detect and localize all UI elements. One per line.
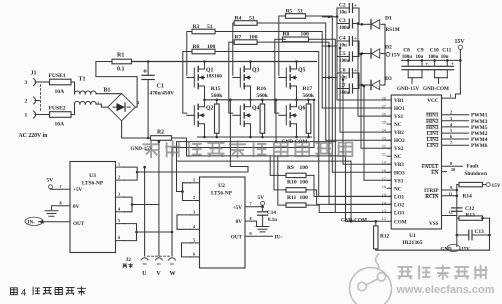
resistor R6 — [192, 49, 215, 54]
svg-text:17: 17 — [382, 177, 386, 181]
svg-text:PWM6: PWM6 — [471, 143, 488, 149]
wire U2 pin6 stub — [191, 256, 200, 258]
wire Q5 gate lead — [279, 77, 287, 79]
wire Q2 gate lead — [187, 114, 195, 116]
svg-text:FUSE1: FUSE1 — [49, 73, 66, 79]
junction R15 top — [216, 99, 219, 102]
junction VB row C6 — [328, 76, 331, 79]
connector J2 pin V — [155, 258, 162, 260]
op-amp U1 IR21365 body — [391, 95, 441, 229]
svg-text:28: 28 — [382, 97, 386, 101]
capacitor C8 — [402, 65, 415, 67]
svg-text:LIN2: LIN2 — [427, 137, 439, 143]
svg-text:NC: NC — [394, 122, 402, 128]
junction R16 top — [261, 99, 264, 102]
junction leg1 drain on rail — [203, 60, 206, 63]
op-amp U2 LT56-NP body — [200, 177, 246, 268]
svg-text:6: 6 — [450, 134, 452, 139]
junction phase V on aux rail — [275, 140, 278, 143]
wire U3 pins 5-6 jumper — [125, 224, 137, 241]
wire FUSE2 to T1 bottom — [71, 104, 75, 114]
junction U3 primary V — [131, 203, 134, 206]
svg-text:100: 100 — [301, 32, 310, 38]
svg-text:5: 5 — [193, 237, 195, 242]
svg-text:LTS6-NP: LTS6-NP — [82, 181, 104, 187]
wire U2 primary up — [177, 161, 183, 191]
svg-text:PWM4: PWM4 — [471, 137, 488, 143]
capacitor C9 — [416, 65, 429, 67]
junction R17 top — [307, 99, 310, 102]
svg-text:EN: EN — [431, 170, 438, 176]
svg-text:C13: C13 — [475, 229, 485, 235]
svg-text:100: 100 — [300, 165, 309, 171]
wire R17 top — [308, 100, 310, 104]
node leg3 drain — [296, 61, 298, 64]
wire C9 top lead — [421, 60, 423, 65]
svg-text:100u: 100u — [339, 26, 350, 31]
wire RC net left rail — [456, 185, 458, 235]
svg-text:560k: 560k — [256, 93, 268, 99]
node leg1 drain — [204, 61, 206, 64]
wire U3 pin1 stub — [116, 166, 125, 168]
wire R7 to driver pin — [257, 42, 391, 204]
junction V from aux rail — [158, 140, 161, 143]
svg-text:8: 8 — [60, 200, 62, 205]
svg-text:24: 24 — [382, 129, 386, 133]
svg-text:HIN2: HIN2 — [426, 119, 439, 125]
svg-text:www.elecfans.com: www.elecfans.com — [396, 284, 495, 296]
svg-text:20: 20 — [451, 167, 455, 172]
ground C14 — [256, 227, 269, 232]
node 5V U3 — [49, 185, 53, 189]
svg-text:5: 5 — [450, 128, 452, 133]
svg-text:9: 9 — [250, 231, 252, 236]
svg-text:HO1: HO1 — [394, 106, 405, 112]
resistor R12 — [374, 226, 378, 249]
junction 5V C14 — [261, 205, 264, 208]
wire V to J2 — [158, 205, 160, 257]
wire bridge DC+ to R1 — [96, 62, 137, 108]
node 5V U2 — [261, 201, 265, 205]
svg-text:R2: R2 — [157, 130, 164, 136]
svg-text:18: 18 — [382, 169, 386, 173]
svg-text:NC: NC — [394, 186, 402, 192]
svg-text:R8: R8 — [283, 32, 290, 38]
wire phase U drop — [137, 100, 248, 172]
wire C13 left — [457, 234, 469, 236]
wire HIN1 to PWM1 — [442, 114, 469, 116]
junction phase V — [249, 99, 252, 102]
wire T1 top to bridge AC1 — [96, 93, 121, 95]
wire 0V down — [256, 221, 258, 226]
svg-text:3: 3 — [118, 192, 120, 197]
svg-text:23: 23 — [382, 137, 386, 141]
wire LIN3 to PWM6 — [442, 144, 469, 146]
wire bootstrap 15V rail — [384, 24, 386, 85]
junction U3 primary W — [135, 231, 138, 234]
svg-text:C14: C14 — [267, 210, 276, 216]
wire U2 pins 1-2 jumper — [183, 183, 191, 201]
label IN- arrow — [39, 220, 44, 224]
svg-text:R1: R1 — [117, 53, 124, 59]
junction rail COM — [350, 220, 353, 223]
wire R13 right down — [483, 218, 490, 250]
wire C4/C5 right join — [353, 41, 360, 57]
svg-text:T1: T1 — [79, 77, 86, 83]
wire D2 anode to 15V rail — [381, 53, 385, 55]
svg-text:B1: B1 — [104, 88, 111, 94]
wire RCIN — [442, 195, 457, 197]
svg-text:51: 51 — [207, 24, 213, 30]
wire Q2 source down — [204, 128, 206, 137]
svg-text:C11: C11 — [442, 48, 451, 54]
wire C4/C5 left join — [337, 41, 349, 57]
capacitor C12 — [452, 207, 462, 209]
wire R14 right — [483, 184, 487, 186]
wire D3 anode to 15V rail — [381, 84, 385, 86]
svg-text:IR21365: IR21365 — [402, 240, 422, 246]
wire C7 to D3 cathode — [359, 84, 371, 86]
svg-text:VB1: VB1 — [394, 98, 404, 104]
wire C10 top lead — [434, 60, 436, 65]
svg-text:LO1: LO1 — [394, 194, 404, 200]
resistor R17 — [306, 104, 311, 133]
svg-text:1: 1 — [118, 162, 120, 167]
svg-text:FUSE2: FUSE2 — [49, 105, 66, 111]
svg-text:0.1u: 0.1u — [268, 218, 277, 223]
svg-text:51: 51 — [298, 8, 304, 14]
svg-text:2: 2 — [118, 175, 120, 180]
svg-text:15V: 15V — [391, 53, 401, 59]
wire U2 pin3 stub — [191, 214, 200, 216]
svg-text:AC 220V in: AC 220V in — [19, 133, 49, 139]
junction leg2 drain on rail — [249, 60, 252, 63]
wire HIN2 to PWM3 — [442, 120, 469, 122]
svg-text:2: 2 — [25, 99, 28, 105]
svg-text:J2: J2 — [126, 257, 132, 263]
svg-text:R13: R13 — [466, 213, 476, 219]
svg-text:LT56-NP: LT56-NP — [211, 191, 233, 197]
junction cap row — [339, 47, 342, 50]
wire C10 C11 gnd join — [435, 77, 448, 79]
wire 15V to VCC elbow — [456, 93, 461, 95]
wire FUSE1 to T1 top — [71, 82, 75, 94]
svg-text:Q4: Q4 — [252, 105, 260, 111]
wire GND-COM rail to COM — [187, 156, 376, 221]
wire phase bus — [205, 99, 315, 101]
node IN- ellipse — [25, 217, 43, 225]
svg-text:8: 8 — [450, 161, 452, 166]
svg-text:V: V — [156, 271, 161, 277]
wire R12 top lead — [375, 221, 377, 226]
junction cap row — [360, 53, 363, 56]
junction VB row C2 — [328, 15, 331, 18]
wire R3 to driver pin — [215, 32, 391, 109]
junction U3 primary U — [136, 171, 139, 174]
inductor T1 winding top — [75, 91, 80, 94]
svg-text:100: 100 — [207, 44, 216, 50]
transistor Q2 — [198, 100, 204, 107]
svg-text:R5: R5 — [286, 8, 293, 14]
wire U3 pin5 stub — [116, 223, 125, 225]
wire VB3 to IC — [343, 80, 391, 165]
transistor Q1 — [198, 62, 204, 69]
svg-text:R12: R12 — [380, 234, 390, 240]
svg-text:11: 11 — [449, 191, 453, 196]
wire R6 to driver pin — [215, 52, 391, 197]
wire U2 pin1 stub — [191, 182, 200, 184]
wire C8 C9 gnd join — [408, 77, 422, 79]
node 15V right — [486, 183, 490, 187]
wire R9 right to LO1 — [306, 175, 391, 196]
wire R16 top — [261, 100, 263, 104]
svg-text:4: 4 — [21, 288, 26, 299]
svg-text:U1: U1 — [409, 233, 416, 239]
connector J2 pin U — [141, 258, 148, 260]
wire U2 OUT — [245, 235, 273, 237]
svg-text:Q6: Q6 — [298, 105, 306, 111]
resistor R5 — [286, 14, 306, 19]
wire to GND-15V node — [456, 235, 458, 247]
svg-text:VB2: VB2 — [394, 130, 404, 136]
resistor R15 — [215, 104, 220, 133]
connector J1 pin 2 — [34, 97, 36, 104]
wire to GND-COM label — [438, 78, 440, 84]
watermark company glyphs — [143, 140, 353, 158]
caption glyphs qudongqidianlu — [33, 286, 86, 295]
svg-text:LIN3: LIN3 — [427, 143, 439, 149]
junction R17 bottom — [307, 136, 310, 139]
wire HIN3 to PWM5 — [442, 126, 469, 128]
svg-text:100: 100 — [249, 35, 258, 41]
svg-text:15V: 15V — [455, 39, 466, 45]
svg-text:10u: 10u — [416, 55, 424, 60]
label motor (dianji) — [123, 263, 133, 268]
wire U3 pin4 stub — [116, 211, 125, 213]
svg-text:100u: 100u — [339, 91, 350, 96]
svg-text:22: 22 — [382, 145, 386, 149]
svg-text:OUT: OUT — [231, 235, 243, 241]
wire Q5 source to phase node — [296, 90, 298, 100]
wire U3 pin6 stub — [116, 240, 125, 242]
junction cap row — [342, 78, 345, 81]
junction phase U drop — [229, 99, 232, 102]
svg-text:27: 27 — [382, 105, 386, 109]
wire VB row C6 — [323, 77, 338, 79]
svg-text:26: 26 — [382, 113, 386, 117]
svg-text:10S160: 10S160 — [206, 74, 222, 80]
resistor R8 — [283, 37, 309, 42]
junction VB row C4 — [328, 45, 331, 48]
wire U2 pin4 stub — [191, 228, 200, 230]
resistor R7 — [234, 40, 257, 45]
wire Q6 source down — [296, 128, 298, 137]
junction phase V drop — [275, 99, 278, 102]
svg-text:6: 6 — [193, 251, 195, 256]
wire R16 bottom — [261, 133, 263, 137]
transistor Q4 — [244, 100, 250, 107]
svg-text:PWM3: PWM3 — [471, 119, 488, 125]
svg-text:W: W — [170, 271, 176, 277]
capacitor C4 — [348, 37, 350, 46]
junction C13 right — [488, 234, 491, 237]
svg-text:R6: R6 — [193, 44, 200, 50]
wire VS2 to IC — [361, 54, 391, 148]
junction phase W — [295, 99, 298, 102]
svg-text:GND-COM: GND-COM — [341, 218, 367, 224]
wire J1 pin1 to FUSE2 — [40, 114, 50, 116]
bridge rectifier B1 — [108, 93, 136, 120]
svg-text:R4: R4 — [235, 15, 242, 21]
wire FAULT out — [442, 165, 463, 167]
junction cap row — [363, 85, 366, 88]
svg-text:LO3: LO3 — [394, 210, 404, 216]
caption glyph tu — [10, 288, 17, 295]
svg-text:C8: C8 — [403, 48, 410, 54]
svg-text:R14: R14 — [463, 193, 473, 199]
junction C8 top — [407, 59, 410, 62]
wire rail down to COM — [350, 161, 352, 221]
wire R5 to high gate — [279, 16, 286, 75]
svg-text:RCIN: RCIN — [425, 194, 439, 200]
svg-text:2: 2 — [193, 195, 195, 200]
capacitor C5 — [348, 52, 350, 61]
svg-text:GND-15V: GND-15V — [397, 86, 419, 92]
node leg2 drain — [250, 61, 252, 64]
svg-text:9: 9 — [450, 185, 452, 190]
svg-text:Q2: Q2 — [206, 105, 214, 111]
junction C10 top — [433, 59, 436, 62]
svg-text:+5V: +5V — [233, 205, 243, 211]
resistor R14 — [459, 182, 483, 186]
wire R12 bottom rail — [376, 249, 490, 250]
wire R15 bottom — [216, 133, 218, 137]
wire U3 pin2 stub — [116, 179, 125, 181]
wire R11 right to LO3 — [306, 205, 391, 212]
op-amp U3 LTS6-NP body — [70, 162, 116, 253]
junction RCIN — [456, 195, 459, 198]
svg-text:J1: J1 — [31, 71, 37, 77]
wire R15 top — [216, 100, 218, 104]
node GND-15V ellipse — [447, 244, 460, 251]
watermark elecfans glyphs — [398, 265, 488, 280]
wire U3 pins 3-4 jumper — [125, 197, 133, 212]
junction W — [171, 231, 174, 234]
wire C14 bottom — [262, 215, 264, 226]
svg-text:GND-COM: GND-COM — [423, 86, 449, 92]
wire 15V cap bus — [402, 59, 461, 61]
svg-text:IU~: IU~ — [275, 235, 284, 241]
wire Q3 source to phase node — [250, 90, 252, 100]
wire W join — [137, 148, 173, 233]
svg-text:1: 1 — [450, 93, 452, 98]
connector J2 dashed — [148, 255, 170, 257]
svg-text:5V: 5V — [47, 178, 54, 184]
node 15V supply — [458, 45, 462, 49]
svg-text:VSS: VSS — [429, 221, 439, 227]
resistor R10 — [286, 188, 306, 192]
svg-text:PWM5: PWM5 — [471, 125, 488, 131]
svg-text:2: 2 — [450, 110, 452, 115]
svg-text:8: 8 — [250, 216, 252, 221]
wire VB row C2 — [323, 16, 338, 18]
svg-text:10u: 10u — [441, 55, 449, 60]
wire U2 +5V — [245, 205, 263, 206]
svg-text:12: 12 — [449, 210, 453, 215]
svg-text:100: 100 — [300, 195, 309, 201]
svg-text:3: 3 — [193, 209, 195, 214]
connector J1 pin 3 — [34, 79, 36, 86]
svg-text:R10: R10 — [287, 180, 297, 186]
wire U3 pins 1-2 jumper — [125, 167, 138, 180]
svg-text:0.1: 0.1 — [117, 67, 125, 73]
svg-text:C1: C1 — [157, 84, 164, 90]
resistor R1 — [112, 59, 132, 64]
capacitor C14 — [258, 211, 268, 213]
connector J2 pin W — [169, 258, 176, 260]
capacitor C13 — [468, 230, 470, 240]
svg-text:D1: D1 — [385, 15, 392, 21]
wire LIN1 to PWM2 — [442, 132, 469, 134]
svg-text:10A: 10A — [55, 89, 65, 95]
junction C3 right — [361, 23, 364, 26]
wire U to J2 — [144, 167, 146, 256]
svg-text:1: 1 — [193, 177, 195, 182]
wire C6/C7 left join — [337, 73, 349, 89]
wire R11 left — [278, 156, 286, 205]
wire W to J2 — [171, 232, 173, 256]
junction cap row — [357, 22, 360, 25]
junction R13 right — [481, 217, 484, 220]
capacitor C6 — [348, 69, 350, 78]
svg-text:HO2: HO2 — [394, 138, 405, 144]
junction cap row — [336, 15, 339, 18]
junction C5 right — [361, 52, 364, 55]
svg-text:Fault: Fault — [467, 164, 479, 170]
resistor R16 — [260, 104, 265, 133]
junction C1 bottom — [147, 137, 150, 140]
wire C11 bottom lead — [446, 70, 448, 78]
wire Q4 gate lead — [233, 114, 241, 116]
wire ITRIP — [442, 189, 457, 191]
connector J1 dashed bracket — [40, 85, 42, 113]
wire V join — [132, 142, 159, 205]
junction C9 top — [421, 59, 424, 62]
svg-text:D2: D2 — [385, 45, 392, 51]
junction leg3 drain on rail — [295, 60, 298, 63]
wire R2 to GND-COM rail — [172, 138, 187, 156]
junction ITRIP — [456, 189, 459, 192]
svg-text:HIN3: HIN3 — [426, 125, 439, 131]
svg-text:1: 1 — [97, 101, 99, 106]
svg-text:C10: C10 — [430, 48, 440, 54]
svg-text:C9: C9 — [417, 48, 424, 54]
junction C1 top — [147, 60, 150, 63]
svg-text:VCC: VCC — [427, 98, 438, 104]
svg-text:HIN1: HIN1 — [426, 113, 439, 119]
svg-text:U3: U3 — [89, 173, 96, 179]
svg-text:470u/450V: 470u/450V — [150, 91, 175, 97]
wire VB1 to IC — [337, 17, 391, 101]
wire U3 OUT left — [39, 221, 71, 223]
wire VSS — [442, 215, 457, 217]
resistor R11 — [286, 203, 306, 207]
resistor R4 — [234, 21, 257, 26]
svg-text:LO2: LO2 — [394, 202, 404, 208]
svg-text:D3: D3 — [385, 76, 392, 82]
wire U2 pin2 stub — [191, 200, 200, 202]
diode D3 — [370, 80, 372, 89]
